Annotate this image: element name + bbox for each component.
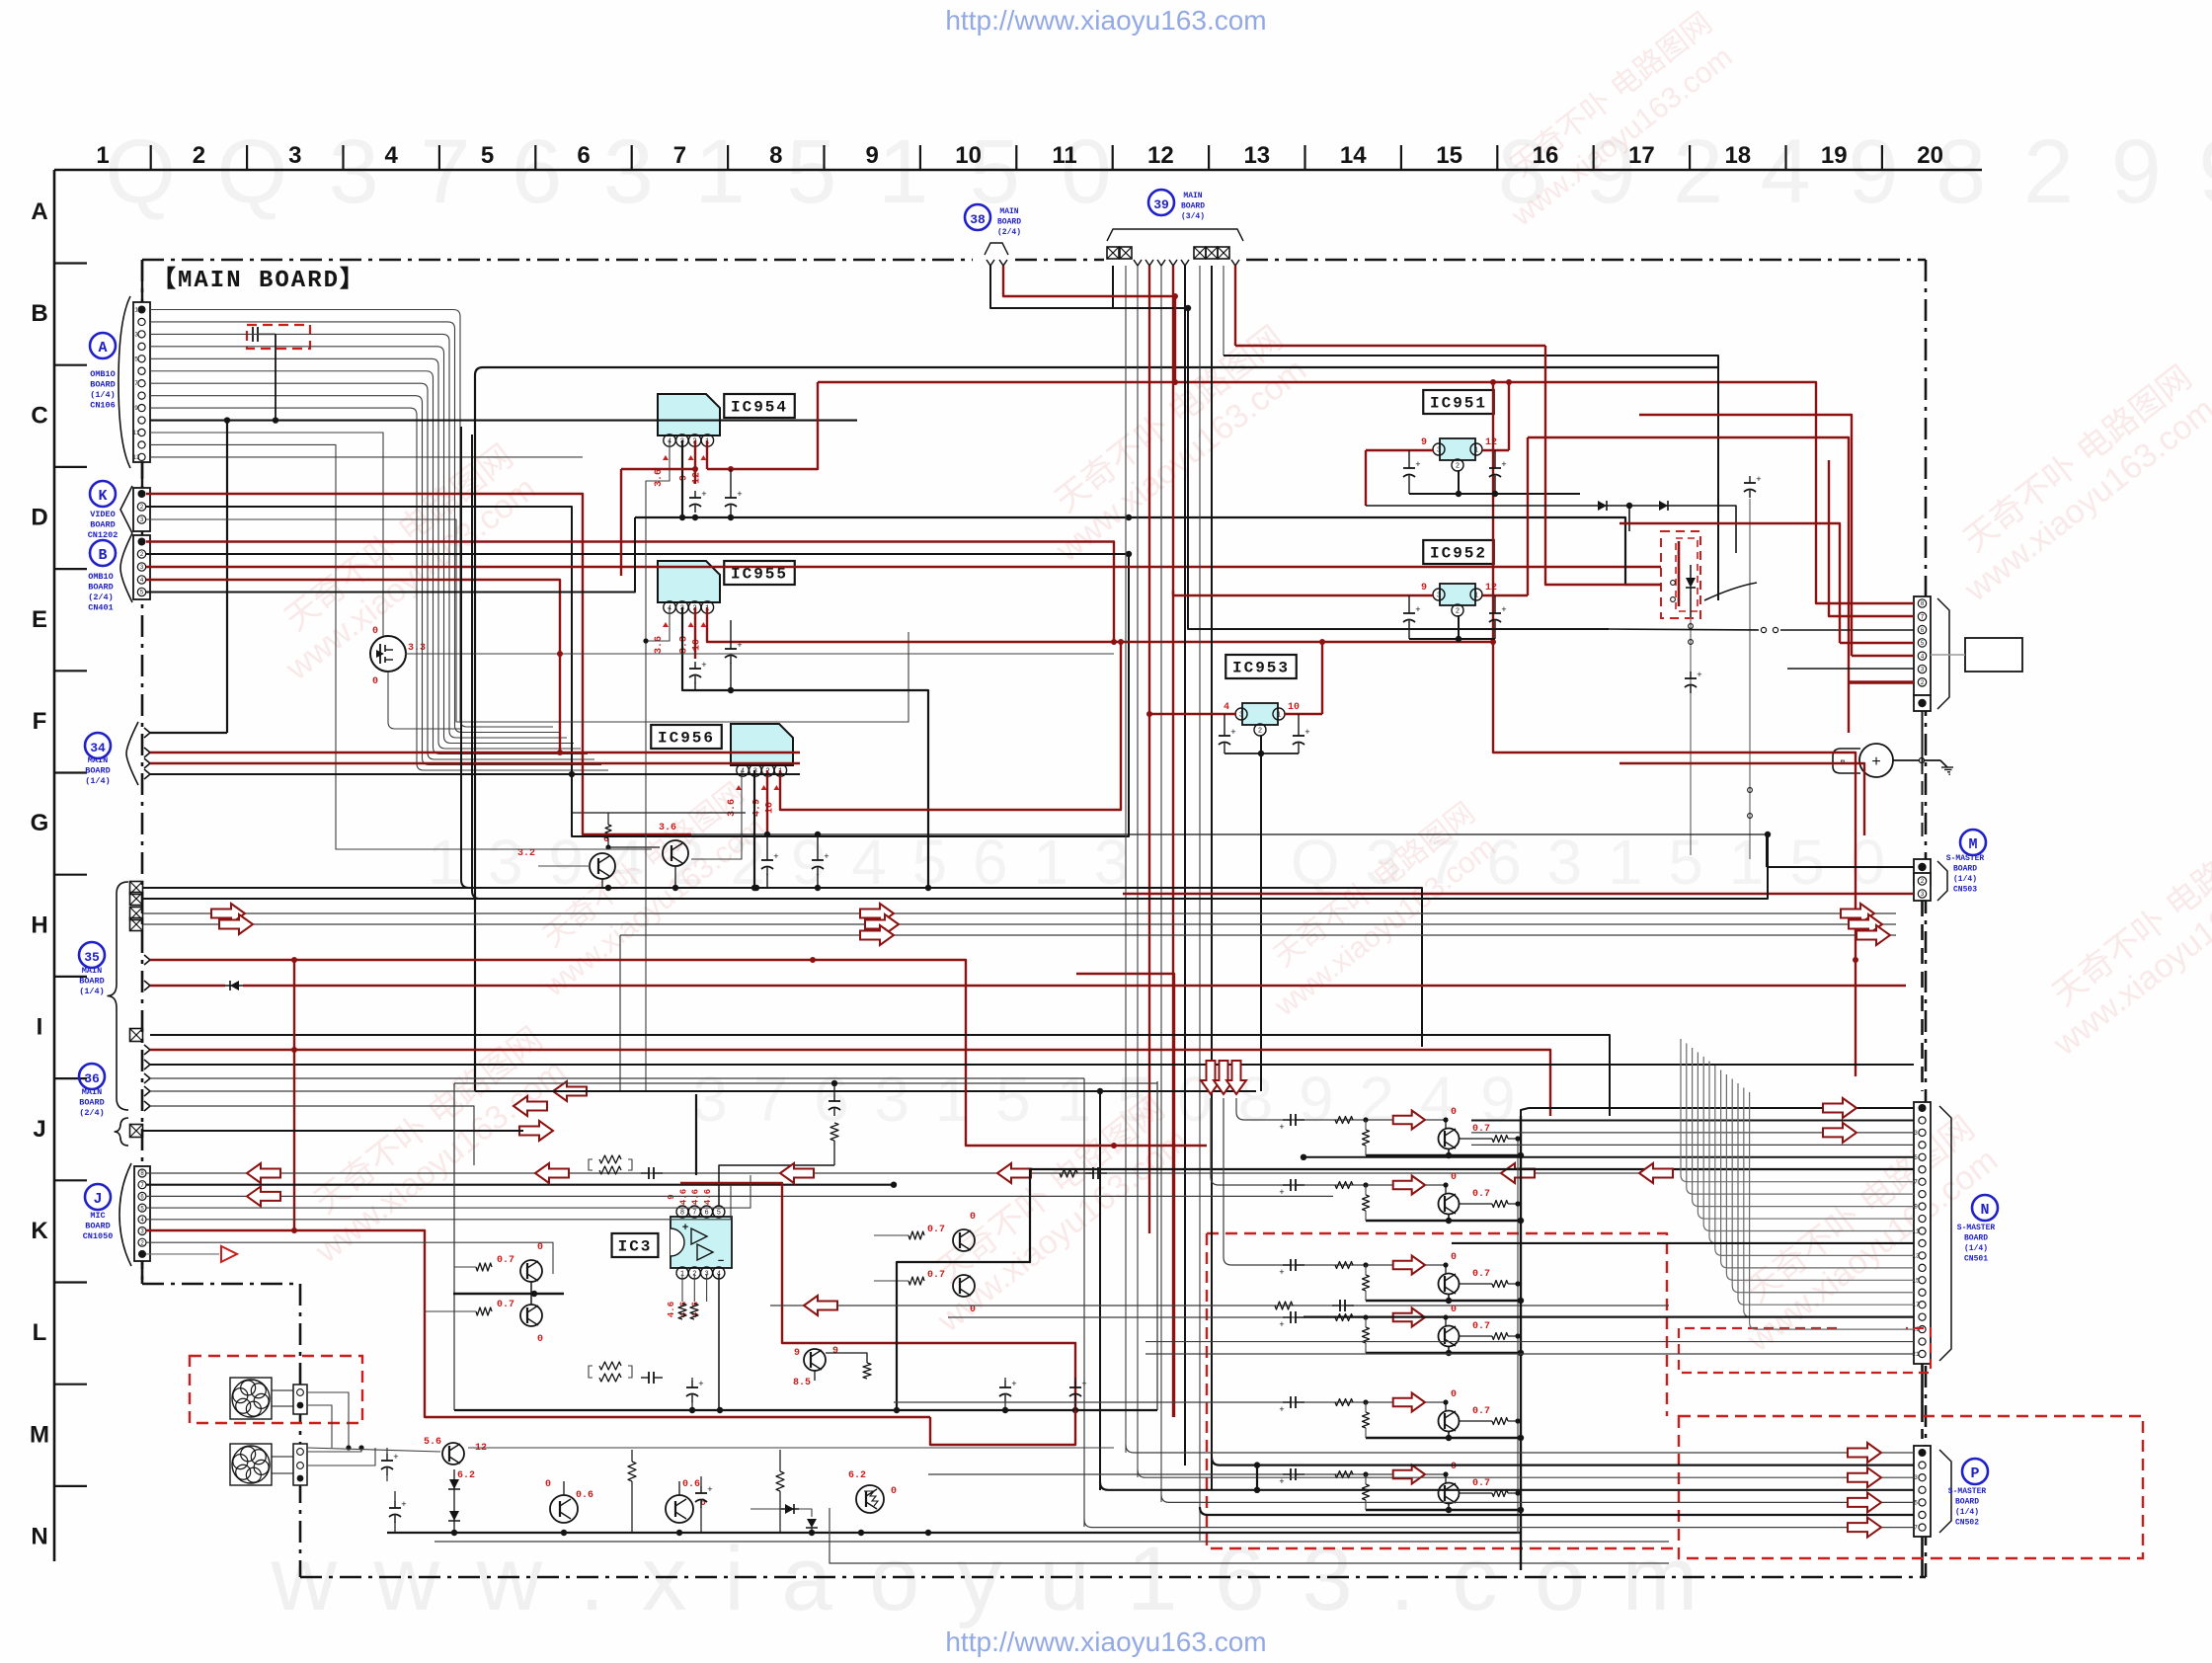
svg-text:9: 9 [832, 1346, 838, 1357]
H wire 1 [143, 888, 1422, 1047]
svg-text:BOARD: BOARD [1955, 1498, 1979, 1507]
caps under IC3 area [691, 1381, 693, 1387]
39 elbow right black [1224, 356, 1718, 600]
transistor bank Q4 feed [948, 1316, 1444, 1318]
gray drop below relay [1690, 617, 1692, 855]
svg-text:M: M [30, 1421, 49, 1448]
E pin8 drop to motor [1922, 711, 1924, 760]
red vertical x629 [620, 469, 622, 576]
fan1 connector [293, 1385, 307, 1414]
transistor Q right pair of IC3 [953, 1229, 975, 1251]
H wire 5 [620, 934, 1896, 936]
svg-text:MAIN: MAIN [82, 966, 102, 976]
connector 34 chevrons [144, 728, 150, 738]
svg-text:BOARD: BOARD [85, 766, 111, 776]
svg-text:CN1050: CN1050 [83, 1231, 114, 1241]
ref P [1962, 1459, 1988, 1484]
svg-text:(3/4): (3/4) [1181, 212, 1205, 221]
svg-text:(1/4): (1/4) [85, 776, 111, 786]
wire J ground down [141, 1261, 144, 1284]
svg-text:E: E [32, 606, 47, 633]
transistor bank Q2 [1439, 1194, 1460, 1215]
svg-text:3.6: 3.6 [654, 636, 665, 654]
transistor bank Q6 emitter bus [1448, 1503, 1450, 1510]
35 wire gray 6 [150, 1077, 1084, 1079]
red loop IC3 [680, 1183, 1075, 1445]
cap fan area [386, 1454, 388, 1461]
svg-text:+: + [1279, 1188, 1284, 1198]
ref N [1972, 1195, 1998, 1221]
red drop from y387 to IC954 [707, 382, 818, 469]
svg-text:9: 9 [866, 142, 879, 169]
cap under IC954 a [694, 491, 696, 498]
svg-text:5: 5 [1921, 640, 1925, 647]
N pin4 wire [1471, 1144, 1914, 1146]
svg-text:0.7: 0.7 [497, 1255, 514, 1266]
svg-text:+: + [1279, 1268, 1284, 1278]
svg-text:5: 5 [481, 142, 494, 169]
ref 38 [965, 204, 990, 230]
ref M [1960, 830, 1986, 855]
N pin6 wire [1303, 1168, 1679, 1170]
vertical bus x1540 [1520, 1116, 1522, 1570]
svg-text:15: 15 [1436, 142, 1462, 169]
wire B2 black [146, 553, 1129, 555]
svg-text:2: 2 [140, 504, 144, 511]
svg-text:0.6: 0.6 [576, 1490, 593, 1501]
svg-text:+: + [393, 1453, 398, 1463]
fan2 connector [293, 1444, 307, 1485]
left ruler [53, 170, 56, 1561]
svg-text:0.7: 0.7 [1472, 1189, 1490, 1200]
wire IC954 pin2 red [694, 440, 696, 484]
N pin2 wire [1471, 1119, 1914, 1121]
svg-text:36: 36 [84, 1071, 100, 1086]
svg-text:+: + [1501, 605, 1506, 615]
wire 34 pin4 black [150, 773, 800, 775]
J wire 2 [146, 1242, 553, 1274]
bus y372 black [483, 366, 1718, 368]
connector K CN1202 [133, 488, 150, 531]
wire bundle from connector A [150, 310, 553, 728]
top ruler [54, 169, 1982, 172]
cap left of zener [394, 1501, 396, 1508]
svg-text:BOARD: BOARD [79, 977, 105, 987]
svg-text:BOARD: BOARD [79, 1098, 105, 1108]
arc annotation [1704, 583, 1757, 600]
39 elbow right red [1235, 345, 1545, 347]
J wire red pin3 [146, 1230, 930, 1417]
svg-text:4: 4 [1921, 653, 1925, 660]
svg-text:IC951: IC951 [1430, 395, 1487, 413]
svg-text:BOARD: BOARD [90, 380, 116, 390]
transistor bank Q5 base resistor [1363, 1412, 1370, 1428]
svg-text:http://www.xiaoyu163.com: http://www.xiaoyu163.com [945, 5, 1266, 36]
svg-text:CN502: CN502 [1955, 1519, 1979, 1528]
transistor bank Q1 base resistor [1363, 1130, 1370, 1146]
svg-text:0: 0 [970, 1305, 976, 1315]
transistor bank Q1 [1439, 1129, 1460, 1149]
svg-text:5: 5 [1914, 1154, 1918, 1161]
bus y650 black [731, 619, 1114, 621]
svg-text:+: + [1279, 1320, 1284, 1330]
bus y1105 black [475, 1090, 1256, 1092]
svg-text:8: 8 [1921, 600, 1925, 607]
ref 39 [1148, 190, 1174, 215]
wire B5 black [146, 517, 635, 593]
wire K3 gray [146, 519, 908, 722]
svg-text:3.6: 3.6 [727, 799, 738, 817]
svg-text:(1/4): (1/4) [1953, 875, 1977, 884]
thick black elbow to N6 [897, 1169, 1914, 1410]
svg-text:L: L [33, 1319, 47, 1346]
svg-text:34: 34 [90, 741, 106, 755]
mosfet Q [370, 636, 406, 672]
H wire 3 with arrows [143, 912, 1896, 914]
wire A pin11 [150, 433, 383, 636]
red dashed box P [1679, 1416, 2143, 1558]
svg-text:H: H [31, 911, 47, 938]
wire IC956 pin1 red [780, 642, 1121, 810]
35 wire black 5 [150, 1064, 1914, 1066]
38 pins [987, 260, 994, 266]
svg-text:2: 2 [140, 551, 144, 558]
svg-text:3.2: 3.2 [517, 848, 535, 859]
svg-text:3: 3 [1437, 447, 1441, 455]
svg-text:K: K [98, 488, 107, 505]
svg-text:4: 4 [140, 577, 144, 584]
svg-text:+: + [401, 1500, 406, 1510]
transistor bank Q2 feed [1211, 1098, 1444, 1185]
svg-text:+: + [707, 1485, 712, 1495]
bottom bus black [387, 1532, 1521, 1534]
svg-text:4: 4 [140, 1217, 144, 1224]
ground right [1940, 760, 1947, 767]
op-amp IC3 [671, 1217, 732, 1268]
39 bracket [1107, 229, 1243, 241]
transistor bank Q5 [1439, 1411, 1460, 1432]
ref 35 [79, 942, 105, 968]
transistor bank Q4 base resistor [1363, 1327, 1370, 1343]
svg-text:CN1202: CN1202 [88, 530, 118, 540]
svg-text:CN503: CN503 [1953, 886, 1977, 895]
svg-text:J: J [33, 1116, 45, 1143]
transistor bank Q3 base resistor [1363, 1275, 1370, 1291]
svg-text:3: 3 [1239, 712, 1243, 720]
svg-text:(1/4): (1/4) [90, 390, 116, 400]
E connector feed red b [1829, 460, 1914, 616]
svg-text:7: 7 [134, 380, 138, 387]
svg-text:9: 9 [679, 475, 690, 481]
fan 2 [230, 1444, 272, 1485]
svg-text:9: 9 [134, 405, 138, 412]
svg-text:MAIN: MAIN [88, 755, 108, 765]
transistor bank Q5 emitter bus [1448, 1431, 1450, 1438]
svg-text:MAIN: MAIN [82, 1087, 102, 1097]
wire vertical x230 [226, 421, 228, 733]
mosfet wires [405, 653, 560, 655]
big red dashed box bottom middle [1207, 1233, 1679, 1548]
svg-text:3: 3 [140, 564, 144, 571]
svg-text:I: I [37, 1014, 43, 1041]
wire IC954 pin4 gray [646, 440, 670, 1091]
svg-text:7: 7 [140, 1182, 144, 1189]
svg-text:w w w . x i a o y u 1 6 3 . c: w w w . x i a o y u 1 6 3 . c o m [271, 1529, 1704, 1629]
svg-text:BOARD: BOARD [88, 583, 114, 593]
svg-text:0: 0 [891, 1486, 897, 1497]
IC953 wires [1149, 713, 1236, 715]
svg-text:35: 35 [84, 950, 100, 965]
svg-text:18: 18 [1724, 142, 1751, 169]
ref 36 [79, 1064, 105, 1089]
main board border [142, 259, 973, 262]
ref J [85, 1184, 111, 1210]
svg-text:+: + [701, 661, 706, 671]
N cascade wires [1681, 1039, 1914, 1182]
bottom bus gray [434, 1541, 1669, 1543]
transistor bank Q6 feed [928, 1473, 1444, 1475]
connector E right [1914, 596, 1931, 695]
svg-text:0: 0 [1451, 1389, 1457, 1400]
svg-text:Q Q 3 7 6 3 1 5 1 5 0: Q Q 3 7 6 3 1 5 1 5 0 [105, 121, 1119, 222]
wire IC956 pin4 gray [691, 770, 742, 859]
svg-text:2: 2 [1921, 679, 1925, 686]
svg-text:13: 13 [1243, 142, 1270, 169]
IC3 pins down [681, 1274, 683, 1302]
transistor Q left pair [520, 1260, 542, 1282]
svg-text:12: 12 [1147, 142, 1174, 169]
svg-text:OMB1O: OMB1O [88, 572, 114, 582]
svg-text:0: 0 [372, 676, 378, 687]
N pin3 wire [1471, 1132, 1914, 1134]
svg-text:+: + [1230, 728, 1235, 738]
vertical bus x1537 thin [1517, 1139, 1519, 1534]
connector M CN503 [1914, 859, 1931, 885]
svg-text:+: + [1756, 475, 1761, 485]
connector 36 chevrons [144, 1101, 150, 1111]
svg-text:K: K [31, 1218, 48, 1244]
svg-text:+: + [1871, 753, 1881, 771]
red vertical x298 [293, 960, 295, 1230]
cap top row [641, 1172, 649, 1174]
IC3 pin5 wire [719, 1165, 834, 1207]
svg-text:8: 8 [140, 1170, 144, 1177]
svg-text:0.7: 0.7 [1472, 1321, 1490, 1332]
svg-text:0: 0 [545, 1479, 551, 1490]
red left elbow y475 [621, 468, 695, 470]
transistor bank Q3 [1439, 1274, 1460, 1295]
IC3 bottom bus [454, 1409, 1157, 1411]
svg-text:16: 16 [1533, 142, 1559, 169]
svg-text:0: 0 [1451, 1172, 1457, 1183]
svg-text:3: 3 [1921, 891, 1925, 898]
svg-text:+: + [1415, 605, 1420, 615]
svg-text:IC952: IC952 [1430, 545, 1487, 563]
svg-text:S-MASTER: S-MASTER [1946, 854, 1985, 863]
wire B1 red [146, 542, 1114, 643]
vertical link M-N-P [1921, 901, 1924, 1091]
svg-text:11: 11 [1052, 142, 1076, 169]
H wire 2 [143, 834, 1768, 899]
wire motor to bus [1893, 759, 1940, 761]
svg-text:8.5: 8.5 [793, 1378, 811, 1388]
svg-text:9: 9 [1421, 437, 1427, 448]
svg-text:10: 10 [955, 142, 982, 169]
35 wire red 1 [150, 960, 1207, 1146]
row 1322 gray [770, 1305, 1669, 1307]
svg-text:3: 3 [1437, 593, 1441, 600]
vertical black x705 bottom [695, 1094, 697, 1175]
transistor bank Q4 emitter bus [1448, 1346, 1450, 1353]
svg-text:6.2: 6.2 [457, 1470, 475, 1481]
svg-text:7: 7 [1921, 614, 1925, 621]
svg-text:CN501: CN501 [1964, 1255, 1988, 1264]
38 bus drop x1203 [1188, 308, 1609, 629]
svg-text:B: B [31, 300, 47, 327]
regulator IC951 [1440, 438, 1475, 460]
capacitor in dashed box [252, 327, 254, 342]
svg-text:10: 10 [691, 639, 702, 651]
svg-text:0: 0 [372, 626, 378, 637]
svg-text:3: 3 [140, 516, 144, 523]
N pins 20 21 from dashed area [1145, 1341, 1914, 1343]
wire K1 red [146, 494, 691, 834]
svg-text:(2/4): (2/4) [88, 593, 114, 602]
transistor Q 6.2/0 right [856, 1485, 884, 1513]
wire 34 black right end [1128, 517, 1130, 553]
cap bottom row [641, 1377, 649, 1379]
svg-text:+: + [1697, 671, 1701, 680]
svg-text:5: 5 [140, 590, 144, 596]
P black junction dots [1254, 1462, 1260, 1467]
wire IC956 pin2 red [766, 770, 768, 832]
svg-text:0: 0 [1451, 1462, 1457, 1472]
svg-text:IC953: IC953 [1232, 660, 1290, 677]
svg-text:B: B [98, 547, 107, 564]
E connector feed black c [1780, 629, 1914, 631]
svg-text:J: J [93, 1191, 102, 1208]
svg-text:3: 3 [1914, 1474, 1918, 1481]
svg-text:+: + [773, 852, 778, 862]
transistor bank Q5 feed [894, 1401, 1444, 1403]
cap under IC954 b [730, 491, 732, 498]
svg-text:C: C [31, 402, 47, 429]
transistor Q 5.6/12 [442, 1443, 464, 1465]
left pair emitter bus [453, 1293, 564, 1295]
svg-text:2: 2 [1456, 608, 1460, 616]
transistor bank Q2 emitter bus [1448, 1214, 1450, 1221]
svg-text:G: G [31, 810, 49, 836]
transistor bank Q2 base resistor [1363, 1195, 1370, 1211]
op-amp U IC955 [658, 561, 720, 602]
svg-text:+: + [698, 1380, 703, 1389]
38 bus drop x1190 red [1174, 296, 1176, 382]
red dashed box N lower pins [1679, 1328, 1931, 1373]
svg-text:2: 2 [193, 142, 205, 169]
svg-text:1: 1 [134, 307, 138, 314]
wire A top to border [141, 260, 143, 302]
cap under IC955 b [730, 642, 732, 649]
red vertical x1189 lower [1076, 974, 1174, 1417]
mid arrows row K [535, 1163, 569, 1183]
svg-text:0: 0 [537, 1242, 543, 1253]
39 pins [1107, 247, 1119, 259]
caps under IC956 [766, 853, 768, 860]
E connector feed red g thick [1849, 680, 1914, 683]
wire 34 pin1 [150, 732, 227, 734]
svg-text:MAIN: MAIN [999, 207, 1018, 216]
diodes row near relay [1594, 505, 1612, 507]
red B4 via x567 [559, 576, 561, 742]
component box right of E [1965, 638, 2022, 672]
svg-text:8: 8 [769, 142, 782, 169]
connector N CN501 [1914, 1102, 1931, 1364]
svg-text:4: 4 [385, 142, 399, 169]
ref 34 [85, 733, 111, 758]
svg-text:0: 0 [1451, 1305, 1457, 1315]
svg-text:3.3: 3.3 [679, 636, 690, 654]
svg-text:7: 7 [1914, 1179, 1918, 1186]
svg-text:11: 11 [132, 430, 140, 436]
svg-text:CN401: CN401 [88, 603, 114, 613]
down arrows trio [1201, 1061, 1221, 1094]
wire IC954 pin1 red [706, 440, 708, 469]
extra bundle verticals [1083, 1078, 1085, 1527]
wire IC956 pin3 black [753, 770, 755, 888]
svg-text:+: + [1501, 460, 1506, 470]
op-amp U IC956 [731, 724, 793, 765]
svg-text:12: 12 [1485, 583, 1497, 594]
svg-text:3: 3 [288, 142, 301, 169]
bottom bus black 2 [829, 1508, 1669, 1563]
svg-text:6: 6 [577, 142, 590, 169]
svg-text:8: 8 [680, 1210, 684, 1218]
IC953 pin2 drop [1260, 736, 1262, 1091]
N pin1 wire [1529, 1107, 1914, 1109]
svg-text:9: 9 [1914, 1204, 1918, 1211]
red vertical x1565 [1545, 346, 1661, 585]
svg-text:F: F [33, 708, 47, 735]
svg-text:MAIN: MAIN [1183, 192, 1202, 200]
red spur to M area [1619, 763, 1864, 835]
svg-text:BOARD: BOARD [997, 218, 1021, 227]
svg-text:+: + [682, 1223, 689, 1234]
36 wire 1 [150, 1106, 474, 1165]
svg-text:CN106: CN106 [90, 401, 116, 411]
svg-text:5: 5 [1914, 1499, 1918, 1506]
svg-text:3: 3 [140, 1228, 144, 1235]
fan wires right [307, 1392, 349, 1448]
svg-text:BOARD: BOARD [85, 1222, 111, 1231]
svg-text:0.7: 0.7 [1472, 1269, 1490, 1280]
wire IC954 pin3 black [681, 440, 683, 517]
svg-text:http://www.xiaoyu163.com: http://www.xiaoyu163.com [945, 1626, 1266, 1657]
svg-text:17: 17 [1628, 142, 1655, 169]
transistor bank Q4 [1439, 1326, 1460, 1347]
wire K2 black [146, 507, 1129, 836]
connector B CN401 [133, 535, 150, 599]
wire B4 red [146, 580, 560, 752]
svg-text:12: 12 [1485, 437, 1497, 448]
svg-text:+: + [1304, 728, 1309, 738]
wire cap link A3-A10 [275, 334, 276, 420]
wire 34 pin3 red [150, 762, 800, 764]
vertical x467 [461, 427, 469, 888]
svg-text:1: 1 [1474, 447, 1478, 455]
op-amp U IC954 [658, 394, 720, 436]
svg-text:6.2: 6.2 [848, 1470, 866, 1481]
svg-text:BOARD: BOARD [1181, 202, 1205, 211]
